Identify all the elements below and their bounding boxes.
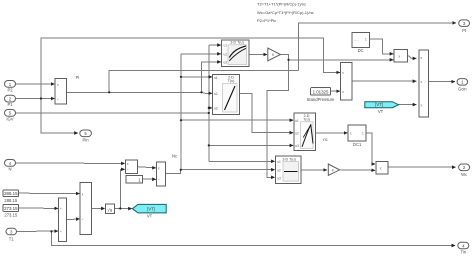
svg-text:Wc: Wc — [461, 172, 467, 177]
svg-text:3-D T(u): 3-D T(u) — [282, 157, 295, 161]
svg-text:u3: u3 — [214, 107, 218, 111]
svg-text:Nc: Nc — [172, 154, 177, 159]
svg-text:÷: ÷ — [158, 178, 160, 182]
svg-text:T(u): T(u) — [303, 118, 310, 122]
svg-text:u1: u1 — [277, 160, 281, 164]
svg-text:Pi: Pi — [76, 75, 80, 80]
svg-text:u2: u2 — [277, 168, 281, 172]
svg-text:u1: u1 — [295, 119, 299, 123]
svg-text:u2: u2 — [224, 52, 228, 56]
svg-text:[VT]: [VT] — [375, 102, 383, 107]
svg-text:√u: √u — [107, 207, 113, 212]
svg-text:u3: u3 — [224, 60, 228, 64]
svg-text:IGV: IGV — [6, 117, 13, 122]
svg-text:P2=P1*Pic: P2=P1*Pic — [257, 18, 276, 23]
svg-text:÷: ÷ — [82, 218, 84, 222]
svg-text:VT: VT — [147, 214, 153, 219]
svg-text:3-D T(u): 3-D T(u) — [230, 41, 243, 45]
svg-text:1: 1 — [350, 132, 352, 136]
svg-text:.....: ..... — [354, 38, 359, 42]
svg-text:1: 1 — [362, 132, 364, 136]
svg-text:÷: ÷ — [57, 98, 59, 102]
svg-text:u2: u2 — [214, 92, 218, 96]
svg-text:Gcin: Gcin — [458, 86, 467, 91]
svg-text:Pin: Pin — [82, 138, 89, 143]
svg-text:[VT]: [VT] — [147, 206, 155, 211]
svg-text:VT: VT — [378, 109, 384, 114]
svg-text:u1: u1 — [224, 43, 228, 47]
svg-text:1.01325: 1.01325 — [313, 89, 329, 94]
svg-text:DC1: DC1 — [353, 142, 362, 147]
svg-text:T1: T1 — [9, 236, 15, 241]
svg-text:StandPressure: StandPressure — [307, 97, 335, 102]
svg-text:1: 1 — [365, 38, 367, 42]
svg-text:u1: u1 — [214, 76, 218, 80]
svg-text:N: N — [8, 167, 11, 172]
svg-text:288.15: 288.15 — [4, 198, 17, 203]
svg-text:u2: u2 — [295, 131, 299, 135]
svg-text:nc: nc — [323, 137, 327, 142]
svg-text:u3: u3 — [277, 177, 281, 181]
svg-text:Wc=Ga*Cp*T1*(Pi^(R/Cp)-1)/nc: Wc=Ga*Cp*T1*(Pi^(R/Cp)-1)/nc — [257, 10, 314, 15]
svg-text:u3: u3 — [295, 144, 299, 148]
svg-text:288.15: 288.15 — [4, 191, 18, 196]
svg-text:273.15: 273.15 — [4, 213, 17, 218]
svg-text:P1: P1 — [7, 102, 13, 107]
svg-text:T(u): T(u) — [228, 79, 235, 83]
svg-text:+: + — [60, 207, 62, 211]
svg-text:P2: P2 — [7, 88, 13, 93]
svg-text:Tin: Tin — [460, 250, 466, 255]
svg-text:273.15: 273.15 — [4, 206, 18, 211]
svg-text:÷: ÷ — [127, 168, 129, 172]
svg-text:+: + — [60, 230, 62, 234]
svg-text:T2=T1+T1*(Pi^(R/Cp)-1)/nc: T2=T1+T1*(Pi^(R/Cp)-1)/nc — [257, 2, 306, 7]
svg-text:DC: DC — [358, 48, 364, 53]
